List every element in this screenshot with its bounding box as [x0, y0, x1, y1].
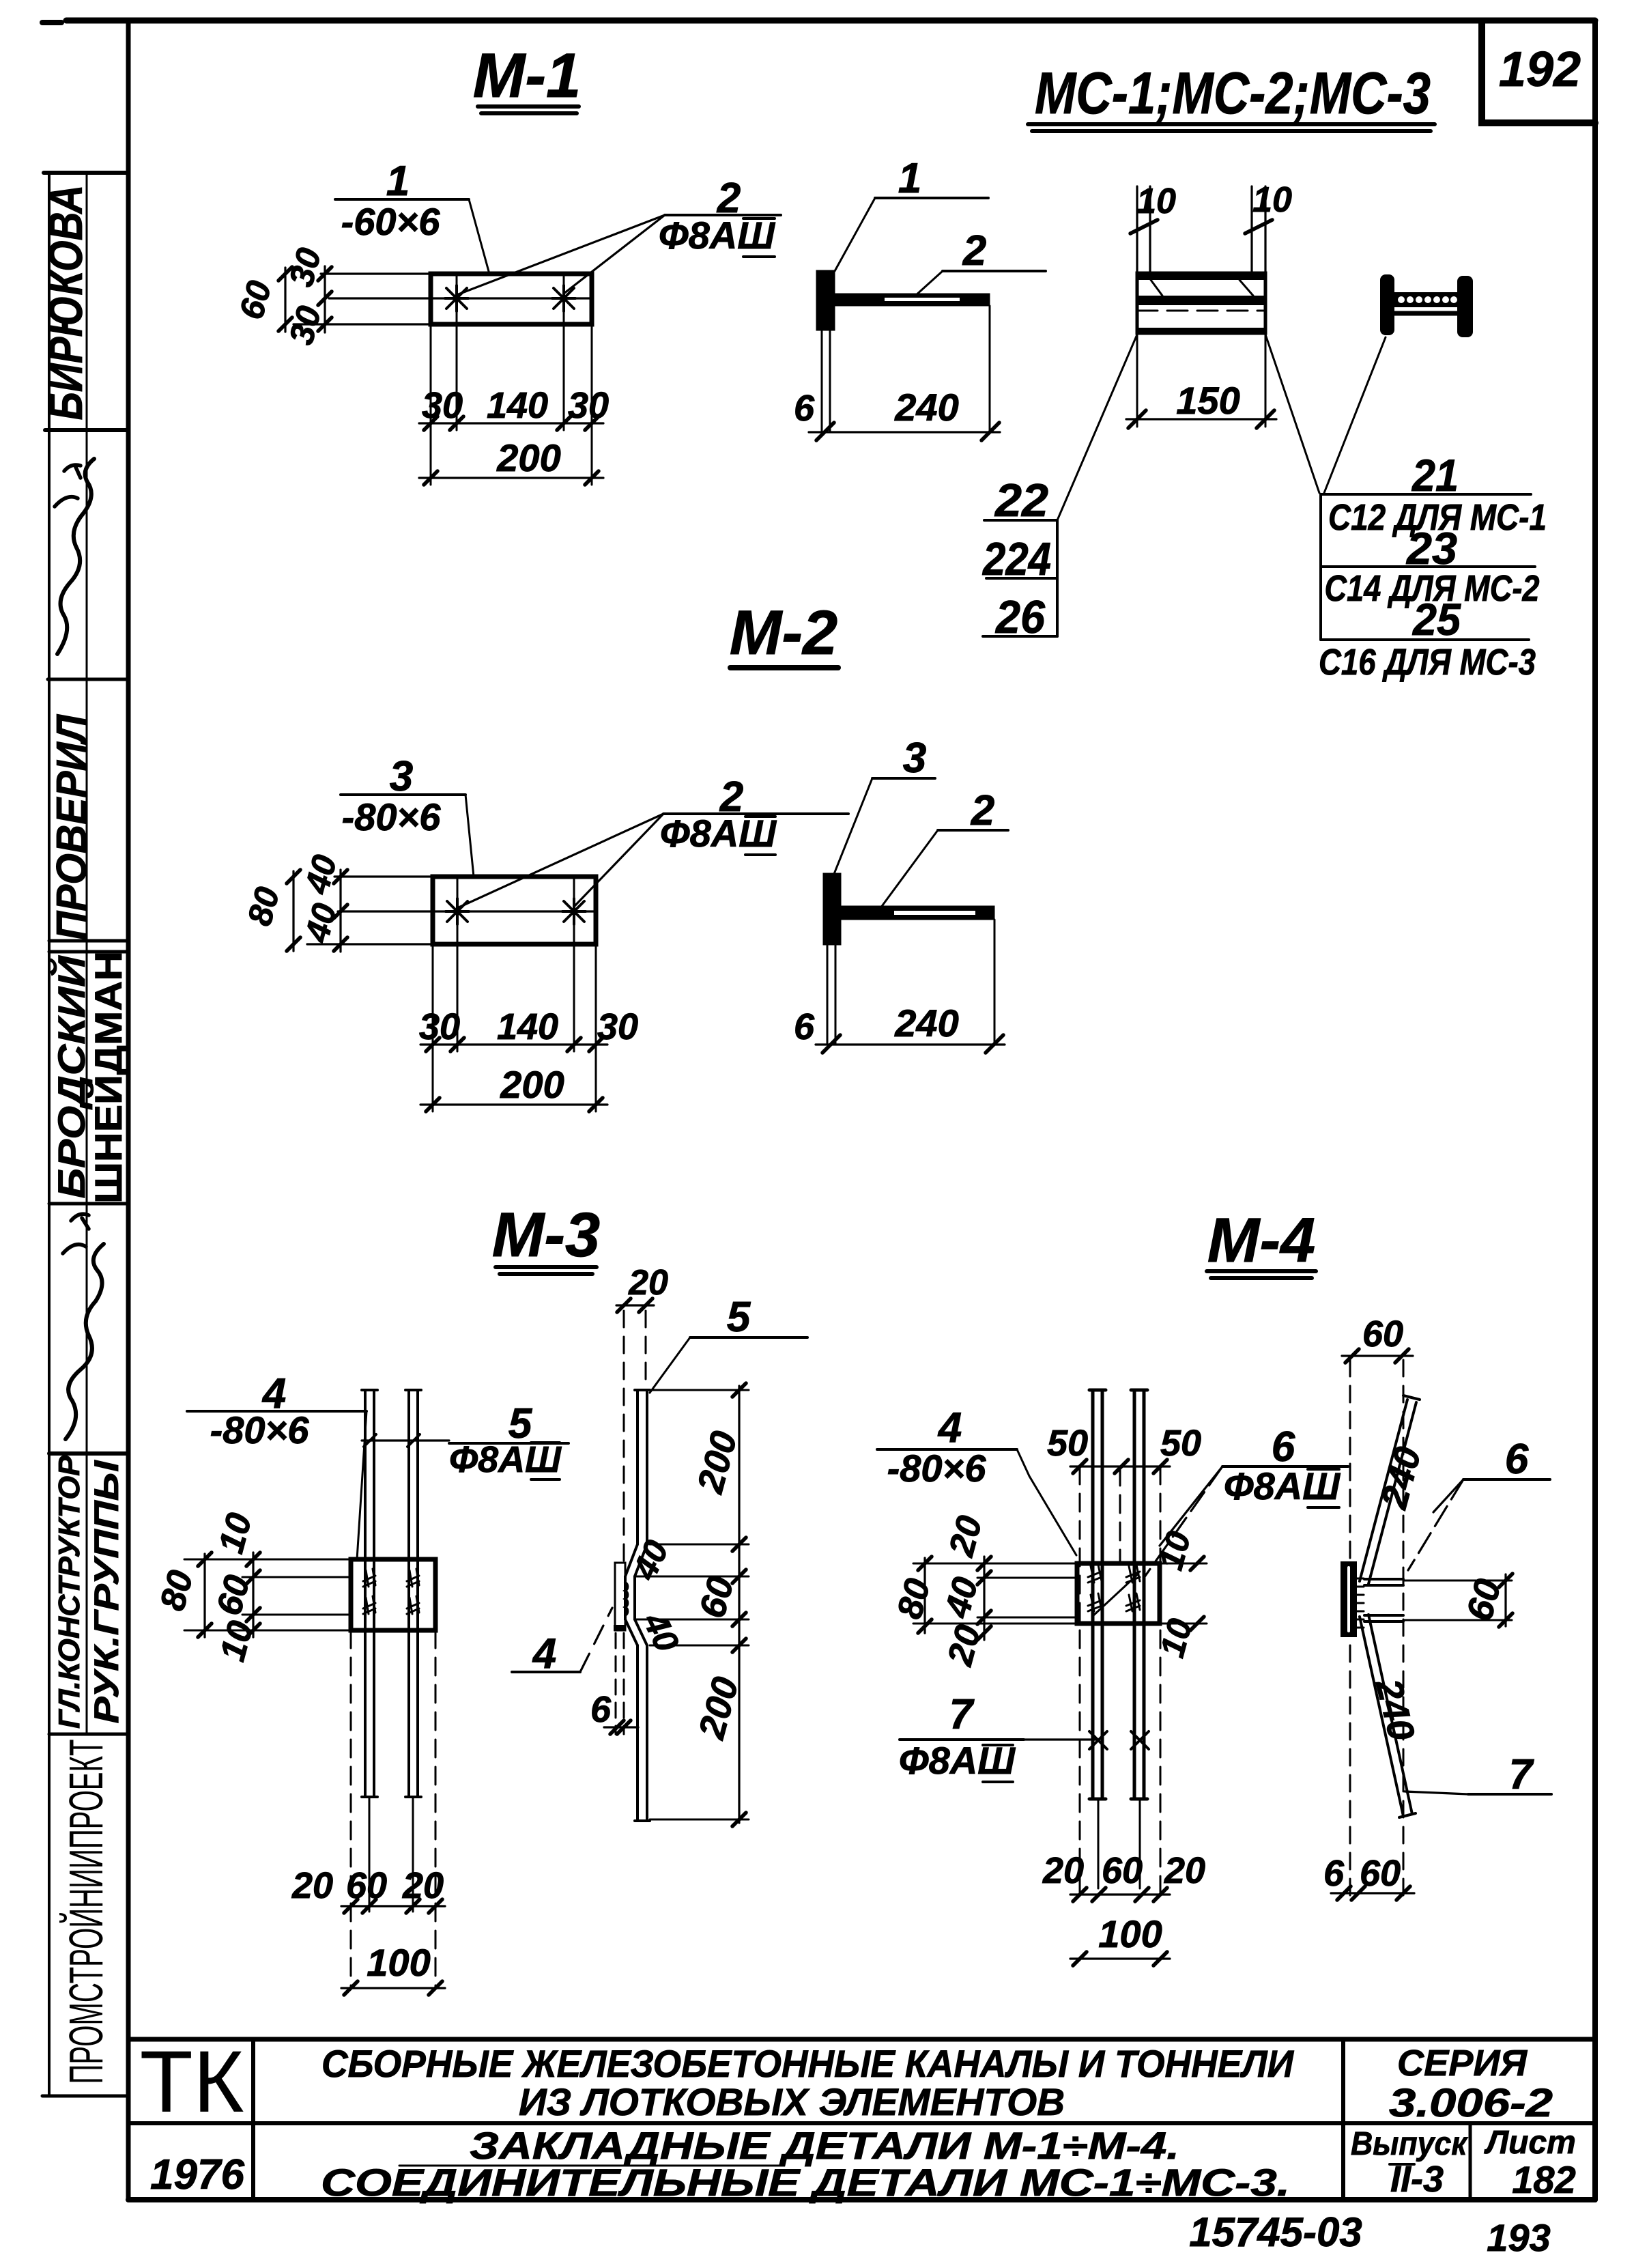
M-3 plan callout 5 value underline: [531, 1443, 560, 1479]
M-1 plan weld axis line: [329, 297, 592, 299]
title block column Seria left edge: [1341, 2039, 1345, 2200]
sidebar row line 7: [49, 1733, 128, 1736]
svg-text:СОЕДИНИТЕЛЬНЫЕ ДЕТАЛИ МС-1÷М: СОЕДИНИТЕЛЬНЫЕ ДЕТАЛИ МС-1÷МС-3.: [321, 2161, 1290, 2204]
M-1 section anchor rod: [834, 294, 990, 306]
svg-text:192: 192: [1499, 42, 1581, 97]
svg-text:1976: 1976: [150, 2151, 244, 2198]
sidebar bottom line: [42, 2095, 128, 2098]
M-4 side dim 60 right line: [1504, 1574, 1506, 1626]
M-3 side callout 5 underline: [690, 1336, 807, 1339]
M-4 side dim 6-60 ticks: [1337, 1886, 1410, 1900]
M-4 side dim 60 top ticks: [1345, 1349, 1409, 1363]
title block top line: [128, 2037, 1595, 2042]
M-1 plan top extension line: [321, 272, 431, 274]
M-4 plan outer dim line: [923, 1558, 926, 1633]
svg-text:М-1: М-1: [473, 41, 581, 111]
svg-text:3: 3: [903, 735, 926, 782]
M-3 plan outer dim line: [203, 1554, 205, 1637]
svg-text:21: 21: [1411, 450, 1459, 500]
title block column TK right edge: [251, 2039, 255, 2200]
M-1 plan outer dim line 60: [284, 268, 286, 332]
MC right table line 1: [1321, 493, 1531, 496]
M-2 plan dim ticks 200: [426, 1098, 603, 1111]
svg-text:4: 4: [532, 1630, 556, 1677]
M-3 side rod lower jog: [625, 1619, 647, 1645]
svg-text:60: 60: [1360, 1853, 1401, 1894]
MC dim line 150: [1126, 418, 1276, 420]
MC channel inner diagonal left: [1151, 280, 1162, 296]
MC channel body outline: [1137, 273, 1265, 333]
M-4 plan inner dim ticks: [977, 1557, 991, 1640]
svg-text:5: 5: [727, 1294, 751, 1341]
M-4 side leader 7: [1405, 1791, 1468, 1794]
M-1 plan bottom extension line: [293, 323, 431, 325]
left signature column grid: [42, 173, 128, 2096]
frame right line: [1592, 20, 1598, 2200]
svg-text:2: 2: [971, 787, 994, 834]
M-4 side callout 7 underline: [1468, 1793, 1551, 1796]
svg-text:ИЗ ЛОТКОВЫХ ЭЛЕМЕНТОВ: ИЗ ЛОТКОВЫХ ЭЛЕМЕНТОВ: [519, 2080, 1065, 2123]
svg-text:240: 240: [894, 386, 958, 429]
M-2 section rod slot: [894, 911, 975, 915]
M-3 side leader 4 dashed: [580, 1608, 612, 1672]
M-3 plan callout 5 rod ticks: [364, 1434, 420, 1447]
M-1 plan leader 2 to left star: [457, 215, 665, 295]
svg-text:М-4: М-4: [1207, 1206, 1315, 1275]
M-4 plan dim line 50-50: [1070, 1465, 1170, 1467]
M-4 side dim 6-60 line: [1331, 1892, 1414, 1894]
M-2 plan plate outline: [433, 877, 596, 944]
svg-text:140: 140: [497, 1006, 558, 1047]
MC leader from I-section: [1324, 337, 1386, 493]
M-4 side ext line upper: [1403, 1580, 1512, 1582]
M-1 section rod end extension: [989, 306, 991, 432]
M-3 side dim 20 right extension: [645, 1311, 647, 1387]
partial underline under subtitle line1: [399, 2165, 782, 2167]
MC channel extension pair left: [1137, 186, 1150, 273]
M-3 side dim 20 line: [616, 1304, 654, 1306]
svg-text:20: 20: [1042, 1850, 1084, 1891]
M-3 plan dim line 20-60-20: [341, 1905, 445, 1907]
MC channel top flange band: [1137, 273, 1265, 280]
MC right table line 2: [1321, 565, 1535, 568]
M-2 section rod end extension: [994, 920, 996, 1045]
title M-2 underline: [730, 665, 838, 670]
M-2 plan weld star right: [562, 898, 586, 924]
svg-text:6: 6: [794, 1006, 815, 1047]
M-4 plan plate outline: [1077, 1563, 1160, 1624]
svg-text:30: 30: [568, 385, 609, 426]
sidebar row line 1: [44, 171, 128, 175]
M-4 plan left ext lower-mid: [977, 1617, 1077, 1619]
M-3 side right dim ticks: [732, 1383, 746, 1826]
svg-text:224: 224: [981, 533, 1051, 585]
signature scribble 2 flick: [63, 1214, 89, 1253]
M-1 plan bottom extension verticals: [431, 324, 592, 485]
M-3 plan left extension lower-mid: [242, 1614, 351, 1616]
svg-text:50: 50: [1047, 1423, 1088, 1464]
M-4 plan right ext bottom tick: [1190, 1617, 1204, 1630]
title block column List left edge: [1469, 2123, 1472, 2200]
M-4 plan weld diagonal scratch: [1092, 1574, 1138, 1617]
MC dim ticks 150: [1128, 410, 1274, 428]
M-4 plan right rod caps: [1131, 1390, 1147, 1799]
M-3 side extension at rod top: [650, 1389, 749, 1391]
svg-text:15745-03: 15745-03: [1189, 2209, 1362, 2255]
M-4 side upper rod cap: [1403, 1395, 1420, 1400]
M-2 plan top extension line: [334, 875, 433, 877]
M-1 section plate: [817, 271, 834, 330]
svg-text:СБОРНЫЕ ЖЕЛЕЗОБЕТОННЫЕ КАНАЛ: СБОРНЫЕ ЖЕЛЕЗОБЕТОННЫЕ КАНАЛЫ И ТОННЕЛИ: [321, 2042, 1295, 2085]
MC I-section web dots: [1398, 296, 1457, 303]
M-1 section leader 2: [915, 271, 943, 296]
svg-text:10: 10: [1136, 182, 1176, 221]
svg-text:200: 200: [500, 1063, 564, 1106]
M-2 plan callout 2 underline: [663, 812, 848, 815]
title M-4 underline: [1207, 1271, 1316, 1278]
M-4 side dim 60 right ticks: [1499, 1574, 1513, 1627]
MC channel extension pair right: [1252, 186, 1265, 273]
M-4 plan left ext upper-mid: [977, 1577, 1077, 1579]
sidebar row line 6: [49, 1451, 128, 1456]
M-4 plan callout 7 value underline: [983, 1745, 1013, 1782]
M-4 plan dim line 100: [1070, 1957, 1170, 1959]
M-4 plan leader 7 cross right: [1131, 1731, 1149, 1749]
M-3 plan left rod: [365, 1391, 374, 1796]
MC left table line 3: [983, 635, 1057, 638]
M-2 section callout 3 underline: [872, 777, 935, 780]
M-4 plan callout 4 underline: [877, 1448, 1017, 1451]
M-4 plan dashed extension right: [1160, 1466, 1162, 1895]
M-3 side extension at 200-40: [650, 1544, 749, 1546]
M-1 plan dim line 200: [419, 477, 603, 479]
MC channel bottom band: [1137, 328, 1265, 333]
M-2 plan callout 2 value underline: [745, 817, 775, 855]
MC left table line 2: [986, 577, 1057, 580]
M-1 plan weld star right: [552, 285, 575, 311]
sidebar inner divider: [86, 173, 88, 1734]
MC dim ticks 10 left: [1130, 220, 1158, 233]
signature scribble 2: [66, 1244, 104, 1439]
M-3 side right dim line: [738, 1386, 740, 1823]
M-3 plan left rod caps: [362, 1390, 377, 1797]
svg-text:60: 60: [346, 1865, 387, 1906]
M-4 plan left rod caps: [1089, 1390, 1106, 1799]
M-2 section leader 2: [880, 830, 938, 908]
M-3 plan weld mark upper-right: [407, 1569, 419, 1587]
frame left line: [126, 20, 131, 2200]
svg-text:Ф8АШ: Ф8АШ: [659, 214, 775, 257]
M-3 plan callout 5 tie line: [362, 1439, 449, 1441]
MC dim ticks 10 right: [1245, 220, 1272, 233]
M-2 section anchor rod: [840, 906, 994, 920]
M-4 side upper diagonal rod 6: [1360, 1400, 1416, 1584]
M-3 side rod bottom segment: [637, 1645, 647, 1819]
M-4 plan leader 7 cross left: [1089, 1731, 1107, 1749]
svg-text:100: 100: [367, 1941, 430, 1984]
M-4 side horizontal stub lower: [1364, 1615, 1403, 1621]
title M-3 underline: [496, 1267, 597, 1274]
svg-text:СЕРИЯ: СЕРИЯ: [1397, 2043, 1528, 2084]
svg-text:М-3: М-3: [492, 1200, 600, 1270]
svg-text:ПРОВЕРИЛ: ПРОВЕРИЛ: [48, 714, 96, 940]
M-1 plan pass-through extension at first anchor: [456, 274, 458, 430]
svg-text:60: 60: [1362, 1314, 1403, 1355]
MC I-section lower web line: [1394, 311, 1457, 316]
svg-text:2: 2: [962, 227, 986, 274]
M-3 side dim 20 dashed extensions: [623, 1311, 625, 1563]
M-1 plan leader 2 to right star: [564, 215, 665, 294]
svg-text:30: 30: [419, 1006, 460, 1047]
svg-text:-80×6: -80×6: [210, 1408, 310, 1451]
M-1 plan plate outline: [431, 274, 592, 324]
overline vypusk II: [1390, 2163, 1414, 2166]
M-3 side dim 6 line: [604, 1726, 638, 1728]
svg-text:20: 20: [402, 1865, 444, 1906]
M-2 plan bottom extension line: [307, 943, 433, 945]
svg-text:150: 150: [1176, 379, 1239, 422]
M-4 side leader 6a: [1433, 1479, 1463, 1512]
sidebar row line 3: [48, 678, 128, 681]
M-3 side extension at 40-200: [650, 1645, 749, 1647]
M-4 side plate edge view: [1342, 1563, 1356, 1636]
MC I-section web band: [1392, 292, 1459, 307]
M-4 plan callout 6 underline: [1222, 1465, 1348, 1468]
M-1 plan leader 1: [469, 199, 489, 274]
M-2 section dim line 240: [816, 1043, 1005, 1045]
M-1 section callout 2 underline: [943, 270, 1046, 272]
MC left table vertical: [1056, 520, 1059, 636]
M-1 plan outer dim ticks: [278, 267, 292, 331]
M-4 plan callout 7 underline: [900, 1738, 1024, 1741]
svg-text:26: 26: [994, 591, 1046, 643]
svg-text:240: 240: [894, 1002, 958, 1045]
M-3 side extension at 60-40: [636, 1619, 749, 1621]
svg-text:20: 20: [1164, 1850, 1205, 1891]
M-3 side rod middle segment: [625, 1576, 635, 1619]
M-4 plan dim line 20-60-20: [1070, 1893, 1170, 1895]
M-3 plan dim ticks 20-60-20: [344, 1899, 442, 1913]
M-1 plan dim ticks 30-140-30: [424, 416, 599, 430]
M-2 plan dim ticks 30-140-30: [426, 1038, 603, 1051]
M-3 plan left extension bottom: [184, 1630, 351, 1632]
M-3 side dim 6 ticks: [610, 1720, 631, 1734]
M-4 side weld comb: [1356, 1578, 1364, 1628]
M-4 side horizontal stub upper: [1364, 1579, 1403, 1585]
M-3 plan callout 4 underline: [187, 1410, 367, 1413]
M-4 plan rod7 tip right: [1139, 1799, 1141, 1888]
svg-text:20: 20: [291, 1865, 333, 1906]
M-1 plan callout 2 value underline: [743, 218, 775, 257]
svg-text:Ф8АШ: Ф8АШ: [1224, 1464, 1341, 1507]
M-4 plan rod7 tip left: [1098, 1799, 1100, 1888]
MC right table line 3: [1321, 638, 1529, 641]
svg-text:200: 200: [496, 436, 560, 479]
M-3 side leader 5: [650, 1337, 690, 1393]
svg-text:3.006-2: 3.006-2: [1389, 2081, 1553, 2125]
svg-text:-60×6: -60×6: [341, 200, 441, 243]
M-4 plan left rod item6: [1093, 1391, 1102, 1798]
M-1 section dim line 240: [809, 431, 1000, 433]
svg-text:БИРЮКОВА: БИРЮКОВА: [39, 185, 92, 421]
svg-text:ТК: ТК: [140, 2033, 244, 2131]
M-3 plan left extension upper-mid: [242, 1576, 351, 1578]
MC dim 150 extensions: [1137, 333, 1265, 427]
M-1 section rod slot: [885, 298, 960, 301]
M-4 plan leader 6b: [1144, 1466, 1222, 1578]
M-4 side dim 60 top line: [1342, 1355, 1413, 1357]
svg-text:Выпуск: Выпуск: [1351, 2126, 1468, 2162]
frame bottom line: [128, 2197, 1595, 2202]
sidebar row line 4 double: [49, 941, 128, 952]
M-3 plan callout 5 underline: [449, 1442, 569, 1445]
M-2 plan inner dim ticks: [334, 870, 347, 951]
MC I-section left flange: [1380, 274, 1394, 335]
M-3 plan inner dim ticks: [246, 1553, 260, 1637]
M-3 side weld bead arcs: [625, 1583, 627, 1615]
svg-text:30: 30: [422, 385, 463, 426]
svg-text:25: 25: [1411, 594, 1461, 644]
svg-text:100: 100: [1098, 1912, 1162, 1955]
svg-text:-80×6: -80×6: [342, 795, 442, 838]
M-2 plan callout 3 underline: [341, 793, 465, 796]
M-3 plan dim ticks 100: [344, 1981, 442, 1995]
svg-text:6: 6: [1505, 1436, 1529, 1483]
M-1 section callout 1 underline: [875, 197, 988, 199]
M-4 plan left ext top: [913, 1563, 1077, 1565]
M-4 plan leader 7: [1024, 1738, 1098, 1740]
stray tick top-left: [42, 20, 61, 25]
title block grid: [128, 2039, 1595, 2200]
M-4 plan callout 6 value underline: [1308, 1469, 1339, 1507]
M-3 plan dim line 100: [341, 1987, 445, 1989]
M-3 plan inner dim line: [252, 1553, 254, 1637]
M-4 plan right ext top tick: [1190, 1557, 1204, 1570]
M-4 side lower diagonal rod 7: [1360, 1615, 1412, 1816]
M-3 plan weld mark lower-left: [363, 1596, 375, 1614]
M-2 plan dim line 200: [420, 1103, 607, 1105]
MC channel web band: [1137, 296, 1265, 305]
M-4 plan inner dim line: [983, 1557, 985, 1640]
svg-text:С16 ДЛЯ МС-3: С16 ДЛЯ МС-3: [1319, 642, 1536, 683]
M-4 plan outer dim ticks: [918, 1557, 932, 1633]
M-3 plan right rod: [409, 1391, 418, 1796]
svg-text:1: 1: [898, 155, 921, 202]
svg-text:6: 6: [590, 1689, 612, 1730]
MC channel inner diagonal right: [1239, 280, 1253, 296]
svg-text:3: 3: [390, 753, 413, 800]
M-3 side rod top segment: [637, 1391, 647, 1544]
M-3 side rod top cap: [635, 1389, 650, 1391]
M-3 plan weld mark lower-right: [407, 1596, 419, 1614]
M-1 plan dim line 30-140-30: [419, 422, 603, 424]
sheet number box: [1482, 22, 1595, 123]
sidebar row line 2: [45, 428, 128, 432]
M-4 plan dim ticks 100: [1073, 1952, 1167, 1966]
svg-text:7: 7: [1509, 1751, 1534, 1798]
sidebar row line 5: [49, 1202, 128, 1206]
M-2 plan bottom extension verticals: [433, 944, 596, 1111]
M-2 plan outer dim line 80: [292, 871, 294, 951]
MC channel hidden dashed line: [1137, 310, 1265, 312]
svg-text:10: 10: [1252, 180, 1292, 220]
M-4 plan right rod item6: [1134, 1391, 1144, 1798]
svg-text:4: 4: [937, 1404, 962, 1451]
svg-text:7: 7: [949, 1691, 975, 1738]
M-1 section leader 1: [835, 198, 875, 271]
M-4 side plate slit: [1347, 1568, 1350, 1631]
M-4 plan weld marks inside plate: [1088, 1565, 1102, 1583]
M-2 plan leader 3: [465, 795, 474, 877]
M-1 section dim ticks: [816, 423, 999, 440]
M-2 section callout 2 underline: [938, 829, 1008, 832]
M-2 plan inner dim line 40-40: [339, 870, 341, 952]
M-2 plan outer dim ticks: [287, 870, 300, 951]
svg-text:60: 60: [1102, 1850, 1143, 1891]
M-4 side callout 6 underline: [1463, 1478, 1550, 1481]
M-3 side extension at 40-60: [636, 1576, 749, 1578]
svg-text:30: 30: [597, 1006, 638, 1047]
M-3 side rod bottom cap: [635, 1819, 650, 1822]
M-2 plan dim line 30-140-30: [420, 1043, 607, 1045]
M-1 plan pass-through extension at second anchor: [563, 274, 565, 430]
M-4 plan dim ticks 20-60-20: [1073, 1888, 1167, 1901]
M-4 plan left ext bottom: [913, 1623, 1077, 1625]
frame top line: [66, 18, 1595, 24]
signature scribble 1: [57, 459, 94, 654]
M-2 section leader 3: [834, 778, 872, 874]
M-3 plan plate outline: [351, 1559, 435, 1630]
M-1 plan weld star left: [445, 285, 468, 311]
M-4 plan leader 6a: [1160, 1466, 1222, 1546]
underline vypusk II: [1390, 2197, 1414, 2200]
MC I-section right flange: [1457, 276, 1473, 337]
signature scribble 1 flick: [55, 465, 81, 507]
MC right table vertical: [1319, 494, 1322, 640]
M-4 plan dashed centre line: [1119, 1468, 1121, 1563]
sidebar outer left edge: [48, 173, 51, 2096]
title MC underline: [1028, 124, 1435, 131]
M-2 plan weld axis line: [338, 910, 596, 912]
svg-text:ПРОМСТРОЙНИИПРОЕКТ: ПРОМСТРОЙНИИПРОЕКТ: [59, 1740, 113, 2084]
M-4 plan right ext top: [1160, 1563, 1207, 1565]
M-2 section dim ticks: [822, 1035, 1003, 1053]
M-2 plan pass-through extension at second anchor: [573, 877, 575, 1051]
M-2 section plate extension doubles: [827, 944, 835, 1045]
M-3 plan right rod caps: [405, 1390, 421, 1797]
svg-text:23: 23: [1405, 523, 1457, 573]
svg-text:6: 6: [794, 388, 815, 429]
M-3 side plate edge view: [615, 1563, 625, 1630]
M-2 plan leader 2 to left star: [457, 814, 663, 908]
MC leader to left table: [1057, 335, 1137, 520]
svg-text:Ф8АШ: Ф8АШ: [660, 812, 777, 855]
M-4 plan dashed extension left: [1079, 1466, 1081, 1895]
M-4 plan dim ticks 50-50: [1073, 1460, 1167, 1473]
svg-text:ШНЕЙДМАН: ШНЕЙДМАН: [87, 951, 130, 1204]
M-4 side leader 6b: [1408, 1479, 1463, 1570]
M-3 plan outer dim ticks: [198, 1553, 212, 1637]
svg-text:6: 6: [1272, 1423, 1295, 1471]
svg-text:1: 1: [386, 158, 410, 205]
M-4 plan right ext bottom: [1160, 1623, 1207, 1625]
M-2 plan pass-through extension at first anchor: [457, 877, 459, 1051]
M-3 side dim 20 ticks: [617, 1299, 653, 1312]
M-1 plan inner dim ticks: [318, 267, 332, 331]
MC left table line 1: [984, 519, 1057, 522]
M-2 plan weld star left: [446, 898, 469, 924]
M-1 plan inner dim line 30-30: [324, 266, 326, 332]
